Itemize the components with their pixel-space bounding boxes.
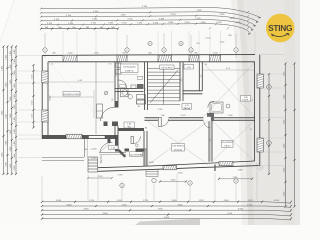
faint window extension lines top: [63, 31, 255, 55]
wall: top exterior (outer+inner lines): [42, 54, 255, 57]
door gap bedroom 1 top wall: [158, 117, 169, 121]
top-left corner crease: [0, 0, 14, 42]
room label: right bathroom: [241, 96, 251, 102]
axis extension line top 3: [163, 33, 165, 58]
vestibule dim tick column: [100, 155, 102, 163]
diagonals: living room (very faint): [49, 63, 114, 133]
wall fill pieces x115: [115, 101, 118, 108]
kitchen interior dim line: [93, 90, 95, 118]
bottom edge shadow streak: [135, 219, 200, 226]
extension lines right: [261, 55, 284, 166]
room label: bedroom 2: [222, 140, 234, 147]
right page fold shadow band: [237, 0, 300, 225]
window: living room south french door: [66, 134, 82, 139]
door arc: bathroom: [119, 80, 127, 88]
top dimension line T3: [41, 16, 256, 26]
axis circle top 2: [125, 48, 129, 52]
bottom dimension line B4: [42, 215, 291, 216]
fixture: washbasin: [226, 104, 230, 108]
top dimension line T4: [41, 20, 254, 30]
wall: bedroom divider x209: [208, 121, 210, 162]
axis extension line top 5: [235, 33, 237, 58]
axis circle mid-top row F: [148, 41, 152, 45]
door arc: living room: [101, 107, 115, 121]
room label: bathroom: [121, 64, 139, 73]
wall: hall right vertical x144 lower: [143, 131, 145, 166]
sub-dimension stub below bedroom 2: [219, 178, 252, 180]
wall: right exterior: [259, 55, 261, 166]
STING logo circle: [266, 14, 295, 43]
door arc: main entry: [100, 142, 113, 152]
wall: upper-right partition x199.3: [198, 62, 200, 91]
window: top wall living room: [63, 55, 77, 61]
left dimension line L2: [7, 47, 9, 175]
bottom dimension line B2: [42, 206, 291, 207]
bottom dimension line B1: [42, 202, 291, 203]
wall: upper-right horizontal y90.8: [183, 90, 202, 92]
wall: corridor jog diagonal (filled): [119, 150, 126, 157]
stairs: interior staircase: [148, 69, 181, 105]
top dimension line T2: [41, 12, 259, 22]
axis circle bottom 2: [188, 181, 192, 185]
wall: corridor jog vertical (filled): [115, 139, 119, 152]
axis circle on R1 lower: [267, 141, 272, 146]
axis circle top 5: [234, 48, 238, 52]
door leaf and arc: corridor to chodba: [131, 137, 133, 144]
wc fixtures top center: [116, 63, 121, 68]
top dimension line T1: [41, 7, 261, 17]
room label: bedroom 1: [172, 144, 185, 152]
fixture: kitchen stove circles: [121, 89, 129, 97]
wall: bedrooms top wall y117.5: [145, 117, 255, 119]
axis circle bottom 1: [120, 183, 124, 187]
left dimension line L3: [11, 47, 13, 175]
small label below bathroom: [120, 85, 126, 88]
bathroom interior dim line: [119, 74, 138, 76]
window: left wall upper: [42, 71, 48, 83]
door arc: upper right bathroom: [208, 101, 214, 107]
room label: upper room P1: [184, 64, 194, 69]
door gap bedroom 2 top wall: [203, 117, 211, 121]
room label: small wc: [124, 122, 135, 128]
fixture: kitchen counter: [97, 104, 103, 118]
bottom dimension line B3: [42, 210, 291, 211]
window: top wall room P1: [189, 55, 199, 61]
room label: hall: [130, 152, 143, 157]
diagonals: bedroom 2: [213, 122, 254, 161]
kitchen south band (filled, with door gap): [104, 122, 108, 127]
bathroom fixtures south: [137, 84, 144, 88]
bathroom small box: [137, 76, 142, 79]
room label: vestibule: [109, 146, 119, 150]
terrace edge lines: [42, 156, 84, 158]
right dimension line R3: [294, 64, 296, 207]
window: top wall bathroom: [210, 55, 221, 61]
wall: chodba north band east piece (filled): [136, 149, 145, 152]
window: top wall kitchen: [117, 55, 127, 61]
stub dimension below porch: [88, 177, 112, 179]
interior dimension line living room: [49, 81, 114, 83]
window: left wall lower: [42, 110, 48, 122]
bottom dimension line B5: [42, 219, 291, 220]
axis circle top 4: [189, 48, 193, 52]
wall: interior living partition line x96: [95, 62, 97, 134]
diagonals: bedroom 1: [148, 122, 208, 165]
room label: living room: [63, 92, 80, 97]
axis circle porch: [152, 178, 156, 182]
wall: bottom exterior (warped): [98, 166, 260, 172]
top dimension line T5: [41, 24, 251, 34]
wall: WC south band (filled): [118, 128, 144, 131]
axis circle mid-top row G: [179, 41, 183, 45]
fold highlight left of crease: [231, 0, 248, 225]
axis circle top 1: [43, 48, 47, 52]
axis extension line top 4: [190, 35, 192, 58]
top dimension line T6 (short): [41, 28, 118, 30]
sub-dimension stub below bedroom 1: [160, 181, 186, 183]
window: bottom wall bedroom 1: [163, 166, 177, 170]
window: right wall lower: [257, 138, 263, 152]
vestibule floor step line: [99, 151, 126, 153]
right dimension line R2: [285, 64, 287, 207]
wall: stair shaft right x180: [179, 62, 181, 101]
wall: porch side rail: [84, 139, 86, 157]
axis circle top 3: [162, 48, 166, 52]
electrical symbol chodba: [136, 144, 139, 147]
left dimension line L1: [3, 47, 5, 175]
stairs: exterior entry steps: [88, 157, 98, 172]
window: right wall upper: [257, 74, 263, 88]
wall: chodba north band west piece (filled): [125, 149, 130, 152]
fixture: shower block upper right: [210, 102, 223, 113]
STING logo smile swoosh: [272, 33, 289, 36]
left inner dimension line L5: [33, 65, 35, 128]
room label: upper room P2: [182, 104, 192, 110]
axis circle on R1 upper: [267, 85, 272, 90]
porch steps below bottom wall: [146, 170, 158, 177]
wall: bathroom bottom y88: [115, 88, 144, 90]
window: bottom wall bedroom 2: [219, 161, 233, 165]
axis circle bottom 3: [234, 179, 238, 183]
ground hatch bottom right corner: [256, 163, 264, 171]
wall: left exterior: [41, 55, 43, 139]
wall stub below bottom wall: [214, 165, 216, 172]
wall: interior vertical x115 (living east): [114, 62, 116, 108]
extension lines bottom: [42, 168, 257, 201]
interior dimension line upper bathroom: [203, 69, 254, 71]
fixture: ceiling light symbol living room: [104, 91, 108, 95]
interior dimension line living room lower: [49, 96, 94, 98]
axis extension line top 1: [44, 33, 46, 58]
room label: staircase: [160, 65, 175, 69]
wall: entry jamb vertical: [108, 139, 111, 143]
fixture: kitchen sink boxes: [137, 95, 146, 100]
right dimension line R1: [268, 74, 270, 174]
wall: stair shaft left x144.5: [144, 62, 146, 110]
extension lines left: [18, 55, 41, 157]
diagonals: right bathroom: [204, 63, 255, 117]
left dimension line L4: [15, 47, 17, 175]
window: top wall stair: [158, 55, 172, 61]
axis extension line top 2: [126, 35, 128, 58]
wall: living room / vestibule north band (filled): [42, 135, 118, 139]
